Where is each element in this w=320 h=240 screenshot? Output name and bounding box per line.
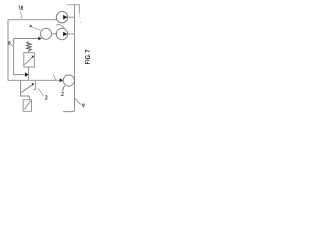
motor circle M2 bottom [63,75,74,86]
wire P2 outlet [68,33,75,35]
relief valve arrow [25,57,33,65]
arrowhead into motor circle M1 [38,37,42,41]
arrowhead junction at relief branch [25,72,29,77]
wire right vertical main [63,5,74,112]
valve V1 arrow [21,85,32,93]
shaft wire [52,33,57,35]
label 16 [8,41,10,45]
link curve between pumps [56,25,65,29]
label 18 [19,6,23,10]
leader 20 wavy [38,88,44,96]
valve V1 body [21,81,30,96]
pump P1 triangle [63,15,67,20]
spring [27,42,32,53]
wire relief branch vertical [28,67,30,80]
label 22 tick [54,76,56,79]
faint stub [78,13,80,17]
leader 12 [63,86,65,91]
leader 14 to shaft [32,27,41,31]
pump P2 bottom circle [56,28,67,39]
label 20 [45,96,47,100]
leader 16 [11,44,14,46]
relief valve V2 body [24,53,35,67]
arrowhead into motor circle M2 [60,78,64,82]
box B1 diagonal [24,101,30,110]
label 14 [30,25,32,28]
pump P2 triangle [63,32,67,37]
box B1 [23,100,31,112]
faint dot [80,22,81,23]
FIG. 7 caption [85,50,89,64]
motor circle M1 [41,28,52,39]
label 10 [82,104,84,108]
label 12 [61,92,63,95]
pump P1 top circle [56,12,67,23]
wire P1 outlet [68,16,75,18]
wire valve to box [29,96,31,100]
leader from 18 to top line [20,11,22,19]
wire top right corner [67,5,79,14]
leader 10 [75,98,81,104]
wire inner branch to pump arrow [14,39,39,75]
wire top/left/bottom main loop [8,20,60,81]
